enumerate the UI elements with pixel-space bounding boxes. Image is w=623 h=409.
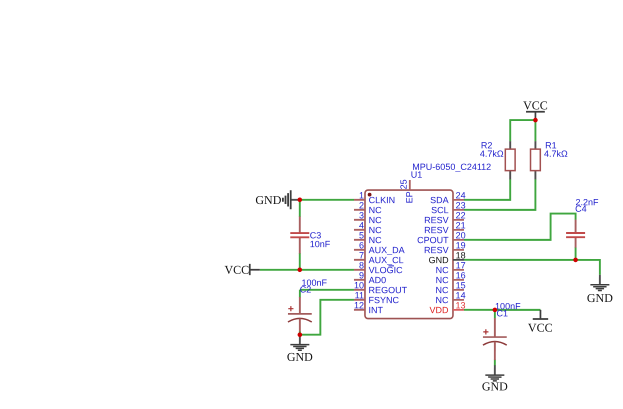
svg-text:24: 24 — [456, 190, 466, 200]
svg-text:7: 7 — [359, 250, 364, 260]
svg-text:25: 25 — [399, 179, 409, 189]
svg-text:4.7kΩ: 4.7kΩ — [480, 149, 504, 159]
svg-text:19: 19 — [456, 240, 466, 250]
svg-text:CLKIN: CLKIN — [369, 195, 396, 205]
svg-text:FSYNC: FSYNC — [369, 295, 400, 305]
svg-text:GND: GND — [287, 350, 313, 364]
svg-text:C1: C1 — [497, 308, 509, 318]
svg-text:C2: C2 — [300, 284, 312, 294]
svg-text:21: 21 — [456, 220, 466, 230]
svg-text:RESV: RESV — [424, 225, 449, 235]
svg-text:8: 8 — [359, 260, 364, 270]
svg-text:SDA: SDA — [430, 195, 449, 205]
svg-text:3: 3 — [359, 210, 364, 220]
svg-text:6: 6 — [359, 240, 364, 250]
svg-text:NC: NC — [369, 225, 383, 235]
svg-text:5: 5 — [359, 230, 364, 240]
svg-text:RESV: RESV — [424, 245, 449, 255]
svg-text:NC: NC — [436, 275, 450, 285]
svg-text:VCC: VCC — [224, 263, 249, 277]
svg-text:NC: NC — [369, 235, 383, 245]
svg-text:NC: NC — [436, 295, 450, 305]
svg-text:9: 9 — [359, 270, 364, 280]
svg-text:AUX_CL: AUX_CL — [369, 255, 404, 265]
svg-text:MPU-6050_C24112: MPU-6050_C24112 — [412, 162, 491, 172]
svg-text:EP: EP — [404, 191, 414, 203]
svg-text:VCC: VCC — [523, 98, 548, 112]
svg-text:AD0: AD0 — [369, 275, 387, 285]
svg-text:AUX_DA: AUX_DA — [369, 245, 405, 255]
svg-text:11: 11 — [355, 290, 364, 300]
svg-text:CPOUT: CPOUT — [417, 235, 449, 245]
svg-text:12: 12 — [354, 300, 364, 310]
svg-text:NC: NC — [369, 215, 383, 225]
svg-text:20: 20 — [456, 230, 466, 240]
svg-text:23: 23 — [456, 200, 466, 210]
svg-text:VLOGIC: VLOGIC — [369, 265, 404, 275]
svg-text:GND: GND — [429, 255, 450, 265]
svg-text:10: 10 — [354, 280, 364, 290]
svg-text:4: 4 — [359, 220, 364, 230]
svg-text:14: 14 — [456, 290, 466, 300]
svg-text:NC: NC — [436, 285, 450, 295]
svg-text:C4: C4 — [575, 204, 587, 214]
svg-text:2: 2 — [359, 200, 364, 210]
svg-text:VCC: VCC — [528, 321, 553, 335]
svg-text:4.7kΩ: 4.7kΩ — [544, 149, 568, 159]
svg-text:INT: INT — [369, 305, 384, 315]
svg-text:RESV: RESV — [424, 215, 449, 225]
svg-text:SCL: SCL — [431, 205, 449, 215]
svg-text:17: 17 — [456, 260, 466, 270]
svg-text:18: 18 — [456, 250, 466, 260]
svg-text:NC: NC — [436, 265, 450, 275]
svg-text:REGOUT: REGOUT — [369, 285, 408, 295]
svg-text:GND: GND — [587, 291, 613, 305]
svg-text:NC: NC — [369, 205, 383, 215]
svg-text:GND: GND — [255, 193, 281, 207]
svg-text:22: 22 — [456, 210, 466, 220]
svg-text:10nF: 10nF — [310, 239, 331, 249]
svg-text:1: 1 — [359, 190, 364, 200]
svg-text:15: 15 — [456, 280, 466, 290]
svg-text:16: 16 — [456, 270, 466, 280]
svg-text:GND: GND — [482, 379, 508, 393]
svg-text:13: 13 — [456, 300, 466, 310]
svg-text:VDD: VDD — [430, 305, 450, 315]
